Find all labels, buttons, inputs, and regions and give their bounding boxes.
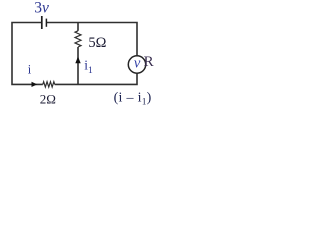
svg-text:(i – i1): (i – i1) — [114, 90, 152, 106]
svg-text:i1: i1 — [84, 57, 93, 75]
svg-text:i: i — [28, 63, 32, 77]
svg-text:v: v — [134, 56, 141, 72]
svg-text:5Ω: 5Ω — [88, 35, 106, 51]
svg-text:R: R — [144, 54, 154, 70]
svg-text:2Ω: 2Ω — [40, 91, 56, 106]
svg-text:3v: 3v — [34, 0, 49, 17]
